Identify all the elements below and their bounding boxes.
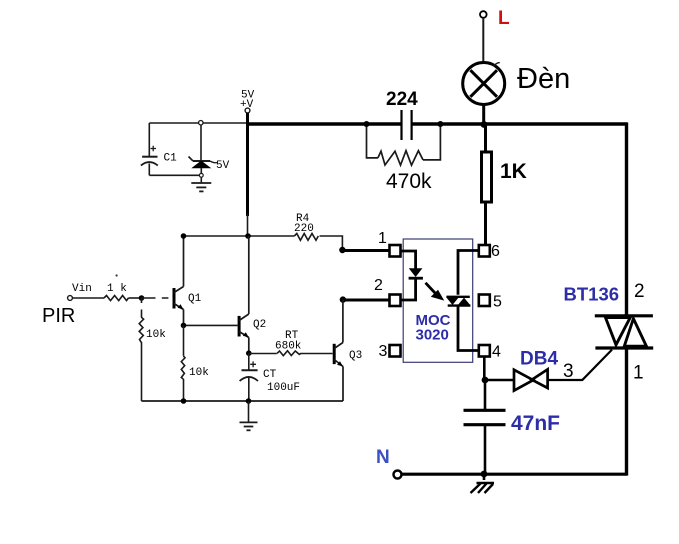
capacitor C1 [141,123,177,175]
svg-text:1 k: 1 k [107,283,127,295]
svg-text:Q1: Q1 [188,293,202,305]
svg-text:3: 3 [563,361,574,382]
svg-text:5V: 5V [216,160,230,172]
junction dot bus mid [246,398,252,404]
junction dot bus left [181,398,187,404]
lamp Đèn [463,63,571,124]
svg-text:470k: 470k [386,170,432,193]
wire node to DB4 [485,379,514,381]
svg-text:10k: 10k [146,329,166,341]
wire bottom bus [142,400,344,402]
resistor R4 220 [294,213,342,250]
light arrow inside optocoupler [426,283,445,301]
wire Q2 emitter to RT [249,353,277,355]
wire junction to Q1 base (broken dashes) [142,297,169,299]
svg-text:Q3: Q3 [349,350,362,362]
svg-text:Vin: Vin [72,283,92,295]
ground under zener [191,177,211,191]
svg-text:224: 224 [386,89,418,110]
junction dot 224 left [364,121,370,127]
transistor Q2 [239,236,266,353]
svg-text:1K: 1K [500,160,527,183]
stray mark near lamp [494,63,500,67]
junction dot base divider [139,295,145,301]
pin 2 square [374,277,401,306]
svg-text:3020: 3020 [416,327,449,344]
node open circle on rail above zener [199,121,203,125]
capacitor 224 [386,89,418,140]
terminal N [376,447,402,479]
terminal PIR / Vin [42,283,127,327]
resistor 470k [367,124,441,193]
terminal +V with labels 5V / +V [240,90,255,237]
junction dot Q1 emitter node [181,323,187,329]
resistor 1 k horizontal [104,296,142,301]
wire right vertical top (rail to BT136) [625,122,628,316]
junction dot 224 right [437,121,443,127]
svg-text:47nF: 47nF [511,412,560,435]
svg-text:L: L [498,8,510,29]
wire PIR to 1k resistor [73,297,105,299]
svg-text:DB4: DB4 [520,349,558,370]
svg-text:CT: CT [263,369,277,381]
svg-text:Đèn: Đèn [517,63,570,95]
svg-text:5: 5 [493,294,502,311]
junction dot bottom rail [481,471,488,478]
junction dot Q1 collector on rail [181,233,187,239]
junction dot Q3 collector node [340,296,346,302]
diac DB4 [514,349,558,391]
pin 1 square [378,230,401,257]
transistor Q1 [174,236,202,325]
pin 6 square [479,243,500,260]
wire to opto pin1 (thick) [342,249,389,252]
svg-text:1: 1 [633,363,644,384]
wire right vertical bottom (BT136 to N rail) [625,348,628,476]
wire DB4 to gate (label 3) [548,350,612,382]
junction dot Q2 emitter node [246,350,252,356]
junction dot R4 to pin1 [339,247,345,253]
svg-text:4: 4 [492,344,501,361]
svg-text:Q2: Q2 [253,319,266,331]
terminal L [480,8,510,62]
pin 3 square [379,343,401,360]
wire pin4 down to node [483,357,486,381]
ground under CT [240,401,258,430]
svg-text:BT136: BT136 [564,284,620,305]
node open circle below zener [199,173,203,177]
optocoupler U1 MOC3020 box [403,239,473,362]
ground chassis bottom [471,474,495,493]
svg-text:3: 3 [379,343,388,360]
wire Q1 emitter to Q2 base [184,324,238,326]
zener diode 5V [189,125,230,174]
junction dot pin4 node [482,377,489,384]
svg-text:PIR: PIR [42,305,75,327]
phototriac inside optocoupler [446,251,478,351]
capacitor 47nF [464,380,561,474]
stray dot above 1 k [116,274,118,276]
resistor RT 680k [275,330,333,356]
svg-text:1: 1 [378,230,387,247]
transistor Q3 [334,300,362,401]
pin 4 square [479,344,501,361]
pin 5 square [479,294,502,311]
wire to opto pin2 (thick) [343,299,389,302]
svg-text:100uF: 100uF [267,382,300,394]
wire collector rail y236 [184,235,295,237]
svg-text:2: 2 [634,281,645,302]
LED inside optocoupler [401,251,423,300]
wire top rail thin left segment [149,122,247,124]
triac BT136 [564,281,654,384]
svg-text:2: 2 [374,277,383,294]
wire bottom rail [402,473,627,476]
junction dot Q2 collector on rail [245,233,251,239]
resistor 10k second [181,325,209,401]
svg-text:N: N [376,447,390,468]
resistor 1K [482,124,527,246]
wire top rail thick (+5V rail) [246,122,627,125]
wire C1 bottom to zener [149,174,201,176]
svg-text:10k: 10k [189,367,209,379]
svg-text:6: 6 [491,243,500,260]
junction dot lamp on rail [481,121,488,128]
capacitor CT 100uF [240,353,300,401]
svg-text:C1: C1 [164,153,178,165]
resistor 10k left [139,298,166,401]
